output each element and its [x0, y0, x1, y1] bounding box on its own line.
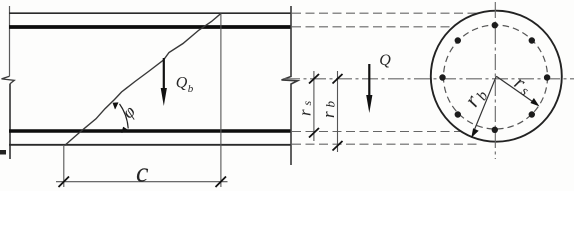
dashed top edge continuation — [292, 12, 477, 14]
dim rb top tick — [333, 74, 343, 84]
rebar dot bottom — [492, 127, 498, 133]
dim rs vertical line — [313, 71, 315, 141]
dashed top rebar continuation — [292, 26, 453, 28]
angle arc phi with arrowheads — [120, 104, 129, 128]
dim c right extension line — [220, 14, 222, 188]
svg-text:Q: Q — [379, 52, 391, 69]
dim c left extension line — [63, 146, 65, 187]
rebar dot lower-left — [455, 111, 461, 117]
rebar dot right — [544, 74, 550, 80]
dim rb bottom tick — [333, 141, 343, 151]
rebar dot lower-right — [529, 111, 535, 117]
radius rs line with arrow — [496, 76, 534, 103]
svg-text:r: r — [296, 109, 315, 116]
left margin artifact mark — [0, 150, 6, 155]
label rb (rotated) — [319, 101, 338, 119]
section outer circle — [431, 11, 562, 142]
beam bottom reinforcement line — [9, 129, 291, 133]
inclined crack line — [65, 14, 221, 146]
dim rs top tick — [309, 74, 319, 84]
rebar dot left — [439, 74, 445, 80]
force arrow Qb — [163, 58, 165, 92]
label rb in section (rotated) — [459, 82, 492, 112]
dim c line — [56, 181, 228, 183]
svg-text:b: b — [323, 101, 338, 108]
rebar dot top — [492, 22, 498, 28]
svg-text:c: c — [136, 158, 149, 189]
dim rb vertical line — [337, 71, 339, 152]
radius rb line with arrow — [474, 76, 497, 132]
rebar dot upper-right — [529, 37, 535, 43]
dim c left tick — [59, 177, 70, 188]
left edge vertical line upper part — [9, 6, 11, 76]
label rs (rotated) — [296, 101, 315, 117]
rebar dot upper-left — [455, 37, 461, 43]
beam top reinforcement line — [9, 25, 291, 29]
dashed bottom rebar continuation — [292, 131, 460, 133]
svg-text:φ: φ — [118, 101, 139, 122]
vertical centre axis of section — [494, 2, 496, 159]
label rs in section (rotated) — [510, 72, 536, 100]
beam bottom edge line — [9, 144, 291, 146]
horizontal centre axis dash-dot — [284, 78, 574, 80]
left edge break zigzag — [2, 76, 15, 84]
left edge vertical line lower part — [9, 84, 11, 159]
svg-text:r: r — [319, 111, 338, 118]
svg-text:s: s — [300, 101, 314, 106]
dim c right tick — [216, 177, 227, 188]
dashed bottom edge continuation — [292, 143, 477, 145]
force arrow Q — [368, 64, 370, 99]
right end vertical line with break — [282, 6, 298, 165]
dim rs bottom tick — [309, 128, 319, 138]
svg-text:Q: Q — [176, 75, 188, 92]
beam top edge line — [9, 12, 291, 14]
svg-text:b: b — [188, 83, 194, 95]
section rebar circle dashed — [444, 25, 548, 129]
